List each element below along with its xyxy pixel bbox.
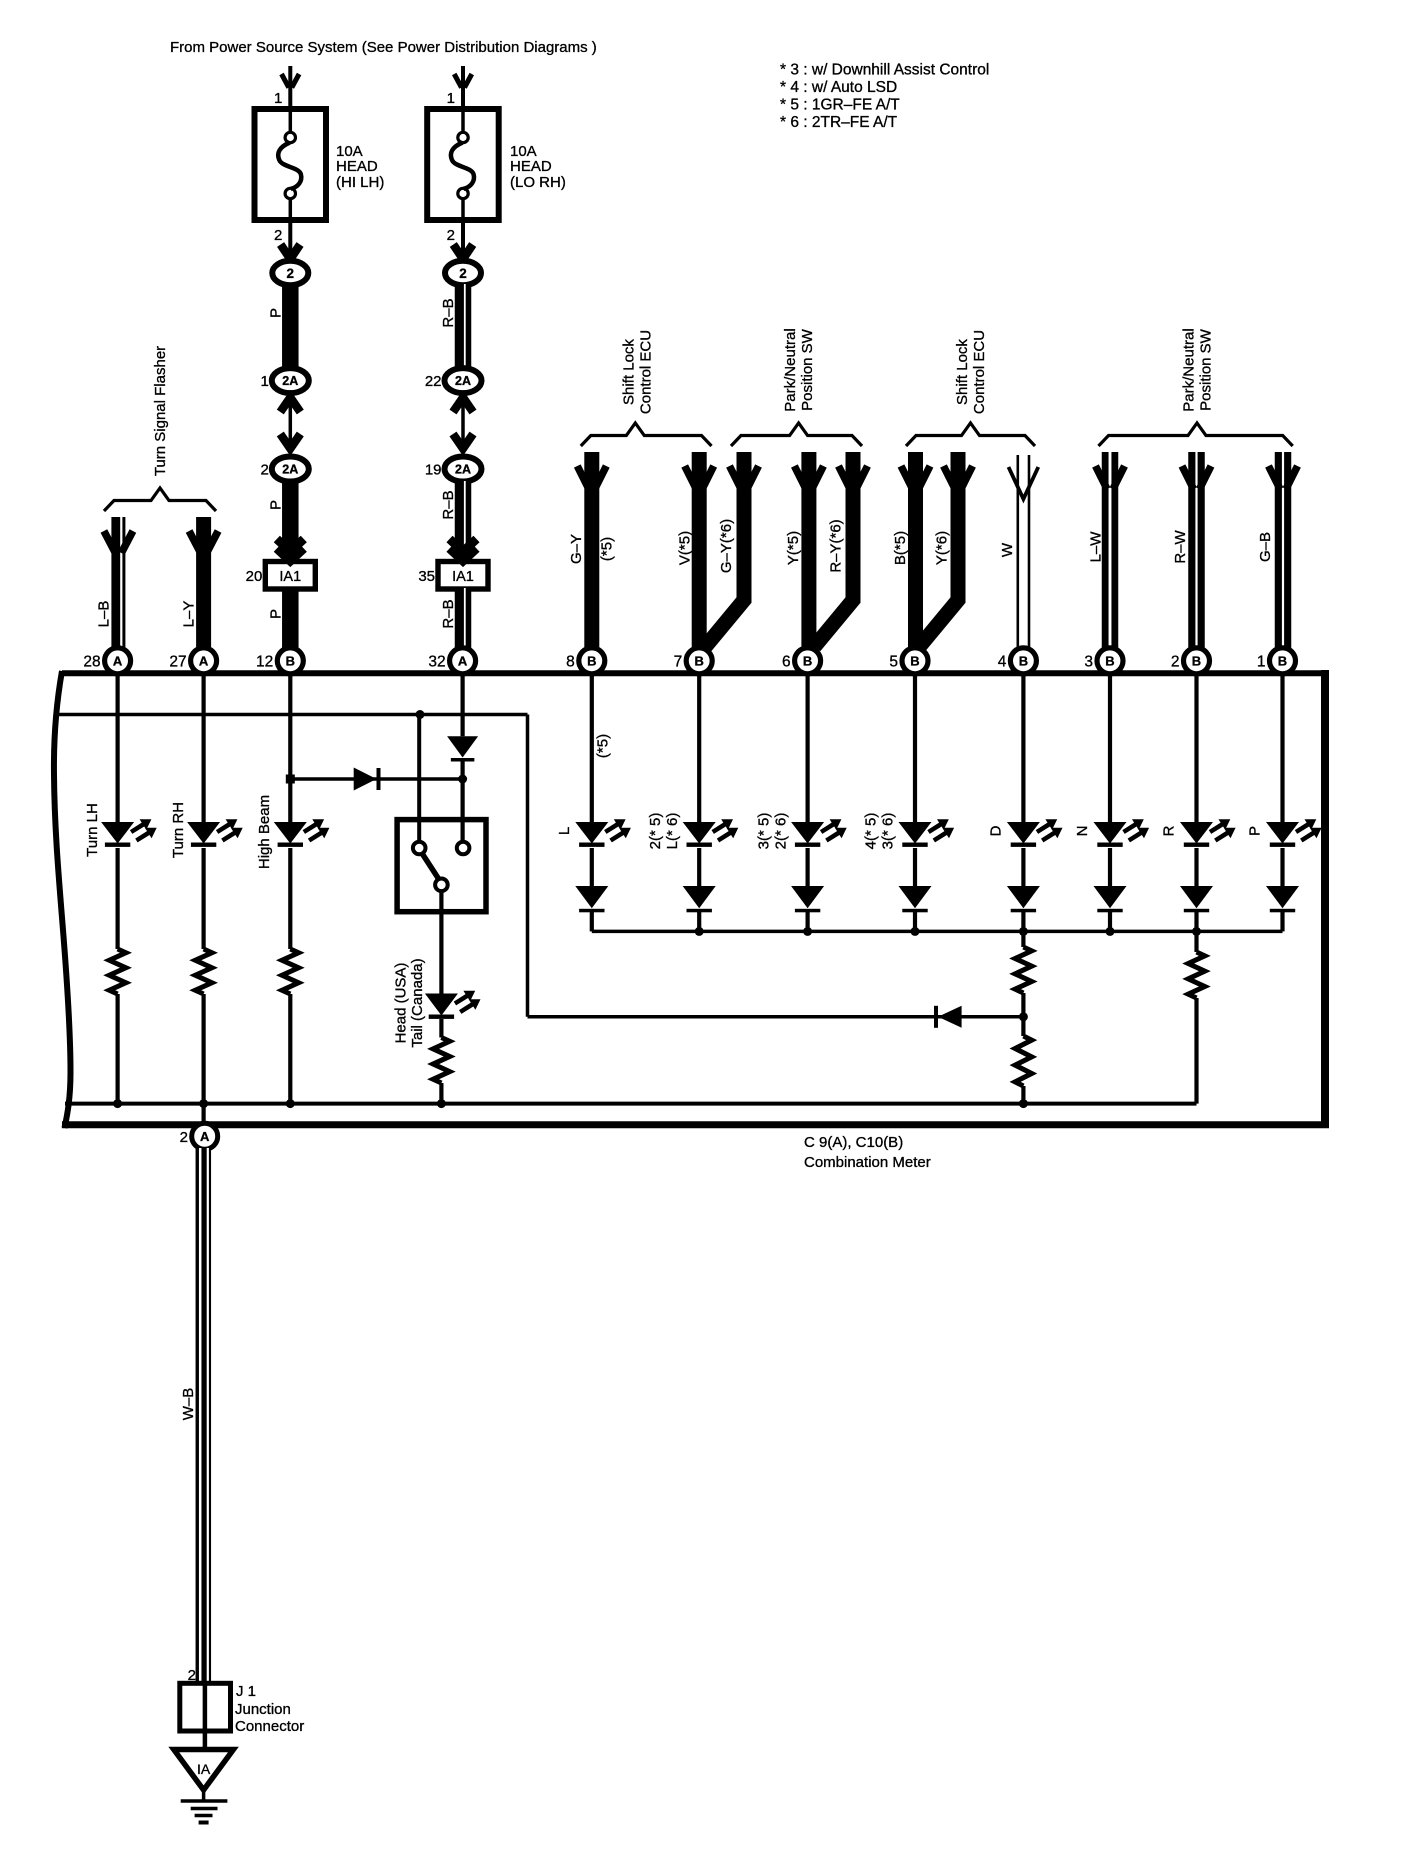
svg-text:20: 20 [246,568,263,585]
resistor on R column [1194,931,1198,952]
LED indicator 3/2 [805,676,809,822]
terminal 4(B) [1010,648,1036,674]
svg-text:Tail (Canada): Tail (Canada) [409,958,426,1047]
wire R–B segment [455,588,472,649]
wire P segment [282,588,299,649]
LED indicator P [1280,676,1284,822]
terminal 3(B) [1097,648,1123,674]
wire below fuse [288,220,292,261]
svg-text:L: L [556,827,573,835]
svg-text:P: P [268,500,285,510]
svg-text:2A: 2A [282,374,298,388]
svg-text:2: 2 [1171,653,1180,670]
node: junction on inner rail [416,710,425,719]
terminal 8(B) [579,648,605,674]
svg-text:19: 19 [425,461,442,478]
svg-text:(HI LH): (HI LH) [336,174,384,191]
svg-text:3: 3 [1084,653,1093,670]
diode under LED L [590,848,594,886]
node: ground rail junction [199,1099,208,1108]
resistor under Turn LH [115,848,119,949]
node: rail junction [803,927,812,936]
svg-text:* 6 : 2TR–FE A/T: * 6 : 2TR–FE A/T [780,114,898,131]
fuse F-LO 10A HEAD (LO) [427,109,499,220]
svg-text:L–W: L–W [1088,531,1105,563]
svg-text:2: 2 [274,227,282,244]
svg-text:Control ECU: Control ECU [971,330,988,414]
connector mating arrows [453,398,473,413]
svg-text:G–Y: G–Y [568,534,585,564]
svg-text:Combination Meter: Combination Meter [804,1154,931,1171]
svg-text:Position SW: Position SW [1198,328,1215,411]
svg-text:P: P [268,308,285,318]
svg-text:From Power Source System (See: From Power Source System (See Power Dist… [170,39,597,56]
svg-text:4(* 5): 4(* 5) [863,813,880,850]
svg-text:Shift Lock: Shift Lock [621,339,638,405]
svg-text:R–B: R–B [440,599,457,628]
svg-text:Park/Neutral: Park/Neutral [1181,328,1198,411]
svg-text:(*5): (*5) [599,537,616,561]
svg-text:R–B: R–B [440,490,457,519]
wire R–B segment [455,284,472,369]
svg-text:HEAD: HEAD [510,158,552,175]
svg-text:27: 27 [169,653,186,670]
svg-text:Turn Signal Flasher: Turn Signal Flasher [152,346,169,476]
svg-text:G–Y(*6): G–Y(*6) [718,519,735,573]
svg-text:3(* 5): 3(* 5) [755,813,772,850]
svg-text:2A: 2A [455,463,471,477]
svg-text:B: B [1019,653,1028,668]
wire B(*5) [908,452,923,649]
svg-text:High Beam: High Beam [256,795,273,869]
svg-text:35: 35 [418,568,435,585]
svg-text:Position SW: Position SW [799,328,816,411]
resistor under Head/Tail LED [439,1019,443,1038]
svg-text:B: B [1105,653,1114,668]
svg-text:Turn LH: Turn LH [84,803,101,857]
arrowhead down [281,245,300,260]
wire: right drop from inner rail [526,715,530,1017]
terminal 1(B) [1270,648,1296,674]
resistor under Turn RH [202,848,206,949]
wire L-B from turn signal flasher [111,517,125,649]
svg-text:R–Y(*6): R–Y(*6) [828,519,845,572]
arrowhead down [282,74,289,88]
svg-text:1: 1 [260,373,268,390]
svg-text:A: A [200,1129,210,1144]
diode under LED D [1021,848,1025,886]
svg-text:P: P [1247,826,1264,836]
wire G-Y (*5) [584,452,599,649]
diode on column 32A [461,673,465,736]
svg-text:J 1: J 1 [236,1683,256,1700]
inner top rail [55,713,528,717]
svg-text:C 9(A), C10(B): C 9(A), C10(B) [804,1134,903,1151]
terminal 32(A) [450,648,476,674]
combination meter C9/C10 box outline [54,671,71,1128]
connector 2 [445,261,481,285]
node: rail junction [695,927,704,936]
svg-text:L–Y: L–Y [181,601,198,628]
wire: feed into fuse LO [461,66,465,109]
svg-text:A: A [458,653,468,668]
junction connector IA1 [265,562,315,590]
svg-text:B: B [695,653,704,668]
wire V(*5) [692,452,707,649]
wire R-Y(*6) diagonal [815,452,854,647]
svg-text:IA1: IA1 [452,569,474,585]
svg-text:4: 4 [998,653,1007,670]
svg-text:5: 5 [889,653,898,670]
switch lever [422,853,440,880]
svg-text:W–B: W–B [180,1388,197,1421]
svg-text:(*5): (*5) [595,734,612,758]
svg-text:W: W [999,542,1016,557]
junction connector J1 [180,1683,231,1731]
svg-text:P: P [268,609,285,619]
diode under LED 4/3 [913,848,917,886]
svg-text:* 3 : w/ Downhill Assist Contr: * 3 : w/ Downhill Assist Control [780,62,989,79]
svg-text:22: 22 [425,373,442,390]
switch: headlamp dimmer [397,820,486,912]
wire W-B to ground [196,1148,212,1683]
node: ground rail junction [286,1099,295,1108]
svg-text:2A: 2A [282,463,298,477]
wire into switch left [417,715,421,842]
diode pointing right [354,768,377,791]
svg-text:(LO RH): (LO RH) [510,174,566,191]
svg-text:3(* 6): 3(* 6) [880,813,897,850]
wire Y(*6) diagonal [920,452,959,647]
svg-text:B: B [286,653,295,668]
node: ground rail junction [437,1099,446,1108]
lower resistor on D column [1015,1036,1032,1086]
svg-text:IA1: IA1 [279,569,301,585]
svg-text:6: 6 [782,653,791,670]
svg-text:Park/Neutral: Park/Neutral [782,328,799,411]
svg-text:Control ECU: Control ECU [638,330,655,414]
terminal 6(B) [795,648,821,674]
bottom ground rail inside meter [65,1102,1197,1106]
svg-text:L(* 6): L(* 6) [664,813,681,850]
svg-text:B: B [1278,653,1287,668]
terminal 2(B) [1184,648,1210,674]
fuse F-HI 10A HEAD (HI) [255,109,327,220]
wire L-W [1102,452,1119,649]
node: rail junction [911,927,920,936]
LED Head (USA) Tail (Canada) [425,994,458,1016]
diode under LED 2/L [697,848,701,886]
node: junction with diode branch [1019,1012,1028,1021]
terminal 7(B) [686,648,712,674]
svg-text:B: B [587,653,596,668]
svg-text:Y(*6): Y(*6) [934,531,951,565]
svg-text:Turn RH: Turn RH [170,802,187,858]
svg-text:R: R [1161,825,1178,836]
wire G-Y(*6) diagonal [706,452,745,647]
node: ground rail junction [113,1099,122,1108]
wire: feed into fuse HI [288,66,292,109]
brace: Shift Lock Control ECU 2 [906,423,1035,446]
svg-text:1: 1 [274,90,282,107]
svg-text:R–B: R–B [440,298,457,327]
resistor under High Beam [288,848,292,949]
svg-text:2(* 5): 2(* 5) [647,813,664,850]
wire R–B segment [455,481,472,562]
wire Y(*5) [801,452,816,649]
brace: Park/Neutral Position SW [731,423,862,446]
wire P segment [282,284,299,369]
connector 2 [272,261,308,285]
svg-text:Junction: Junction [235,1701,291,1718]
arrowhead down [453,245,472,260]
svg-text:B: B [910,653,919,668]
diode under LED R [1194,848,1198,886]
LED indicator L [590,676,594,822]
LED indicator D [1021,676,1025,822]
svg-text:12: 12 [256,653,273,670]
svg-text:* 5 : 1GR–FE A/T: * 5 : 1GR–FE A/T [780,97,900,114]
wire P segment [282,481,299,562]
connector mating arrows [280,398,300,413]
svg-text:B: B [1192,653,1201,668]
brace: Turn Signal Flasher [104,488,216,511]
terminal 12(B) [277,648,303,674]
wire W thin pair [1016,455,1019,649]
ground IA [174,1750,234,1791]
svg-text:L–B: L–B [96,601,113,628]
svg-text:8: 8 [566,653,575,670]
brace: Park/Neutral Position SW 2 [1099,423,1293,446]
svg-text:D: D [988,825,1005,836]
switch contacts [413,842,426,855]
LED High Beam [288,676,292,822]
svg-text:* 4 : w/ Auto LSD: * 4 : w/ Auto LSD [780,79,897,96]
node: rail junction [1106,927,1115,936]
LED indicator R [1194,676,1198,822]
svg-text:2: 2 [287,266,295,281]
node: rail junction [1019,927,1028,936]
connector 2A upper [445,368,482,393]
wire G-B [1275,452,1292,649]
svg-text:Y(*5): Y(*5) [785,531,802,565]
diode pointing left [528,1015,1024,1019]
node: junction at 32A column [458,775,467,784]
double arrowhead [450,539,477,552]
svg-text:G–B: G–B [1257,532,1274,562]
terminal 28(A) [105,648,131,674]
svg-text:1: 1 [1257,653,1266,670]
terminal 2(A) bottom of meter [202,1104,206,1124]
resistor chain on D column [1021,931,1025,947]
LED indicator N [1108,676,1112,822]
svg-text:B(*5): B(*5) [892,531,909,565]
junction connector IA1 [438,562,488,590]
svg-text:A: A [199,653,209,668]
node: ground rail junction [1019,1099,1028,1108]
node: rail junction [1192,927,1201,936]
LED Turn RH [202,676,206,822]
svg-text:R–W: R–W [1172,529,1189,563]
wire R-W [1188,452,1205,649]
svg-text:IA: IA [197,1761,211,1777]
connector 2A upper [272,368,309,393]
svg-text:V(*5): V(*5) [677,531,694,565]
svg-text:N: N [1074,826,1091,837]
wire below fuse [461,220,465,261]
LED indicator 2/L [697,676,701,822]
double arrowhead [277,539,304,552]
svg-text:2(* 6): 2(* 6) [772,813,789,850]
cathode rail of indicator diodes [592,930,1283,934]
svg-text:Head (USA): Head (USA) [393,963,410,1044]
diode under LED P [1280,848,1284,886]
diode under LED 3/2 [805,848,809,886]
node: square junction at High Beam column [286,775,295,784]
ground symbol [202,1788,206,1801]
terminal 5(B) [902,648,928,674]
svg-text:B: B [803,653,812,668]
brace: Shift Lock Control ECU [581,423,712,446]
terminal 27(A) [191,648,217,674]
LED indicator 4/3 [913,676,917,822]
LED Turn LH [115,676,119,822]
arrowhead down [454,74,461,88]
svg-text:Shift Lock: Shift Lock [954,339,971,405]
svg-text:2: 2 [447,227,455,244]
wire below switch [439,891,443,994]
svg-text:2A: 2A [455,374,471,388]
svg-text:HEAD: HEAD [336,158,378,175]
svg-text:28: 28 [83,653,100,670]
svg-text:Connector: Connector [235,1718,304,1735]
connector 2A lower [272,457,309,482]
svg-text:32: 32 [428,653,445,670]
svg-text:A: A [113,653,123,668]
svg-text:7: 7 [674,653,683,670]
wire L-Y from turn signal flasher [196,517,211,649]
svg-text:2: 2 [180,1129,188,1146]
svg-text:1: 1 [447,90,455,107]
diode under LED N [1108,848,1112,886]
svg-text:2: 2 [459,266,467,281]
wire: diode branch from High Beam column [290,777,462,781]
connector 2A lower [445,457,482,482]
svg-text:2: 2 [260,461,268,478]
